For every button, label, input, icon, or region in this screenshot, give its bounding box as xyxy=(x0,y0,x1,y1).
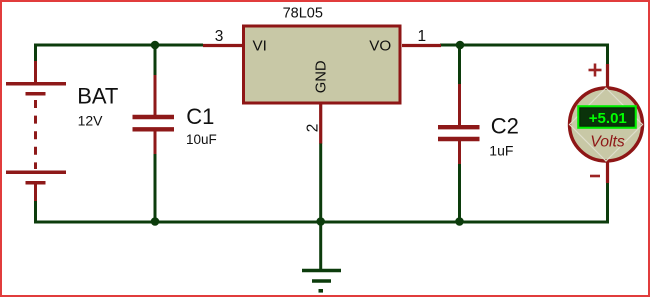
capacitor C1 xyxy=(133,75,175,154)
pin 3 (VI) xyxy=(203,44,242,47)
battery BAT xyxy=(6,61,66,201)
voltmeter display +5.01 xyxy=(579,107,636,128)
wire ground vertical xyxy=(319,143,322,270)
voltmeter body xyxy=(570,88,643,161)
ground xyxy=(302,271,341,291)
svg-text:2: 2 xyxy=(304,124,321,133)
pin 2 (GND) xyxy=(319,104,322,144)
voltmeter pin top xyxy=(606,64,609,88)
svg-text:12V: 12V xyxy=(78,113,104,129)
svg-text:BAT: BAT xyxy=(77,83,118,108)
wire battery bottom xyxy=(34,200,37,224)
junction node VO/C2 top xyxy=(456,41,465,50)
svg-text:VI: VI xyxy=(253,38,267,55)
junction node C1 top xyxy=(151,41,160,50)
wire C2 top xyxy=(458,45,461,85)
wire bottom rail xyxy=(34,221,609,224)
junction node C2 bottom xyxy=(455,217,464,226)
wire top rail left xyxy=(34,44,203,47)
junction node C1 bottom xyxy=(151,217,160,226)
capacitor C2 xyxy=(438,84,480,164)
svg-text:+5.01: +5.01 xyxy=(589,110,627,127)
pin 1 (VO) xyxy=(402,44,441,47)
junction node ground rail xyxy=(316,217,325,226)
svg-text:VO: VO xyxy=(369,38,391,55)
wire meter bottom xyxy=(606,183,609,224)
minus terminal marker xyxy=(590,175,600,178)
wire meter top xyxy=(606,44,609,65)
wire C1 top xyxy=(154,45,157,76)
voltage regulator U1 78L05 body xyxy=(244,26,401,103)
svg-text:78L05: 78L05 xyxy=(283,6,323,22)
svg-text:10uF: 10uF xyxy=(186,132,217,147)
wire top rail right xyxy=(440,44,609,47)
plus terminal marker xyxy=(589,64,602,77)
svg-text:C2: C2 xyxy=(491,113,519,138)
wire C1 bottom xyxy=(154,153,157,222)
svg-text:Volts: Volts xyxy=(590,133,625,150)
svg-text:1: 1 xyxy=(418,28,427,45)
svg-text:GND: GND xyxy=(314,60,330,93)
wire C2 bottom xyxy=(458,164,461,223)
svg-text:3: 3 xyxy=(215,28,224,45)
svg-text:1uF: 1uF xyxy=(489,142,513,158)
svg-text:C1: C1 xyxy=(186,104,214,129)
wire left vertical (battery top) xyxy=(34,44,37,62)
voltmeter pin bottom xyxy=(606,161,609,183)
